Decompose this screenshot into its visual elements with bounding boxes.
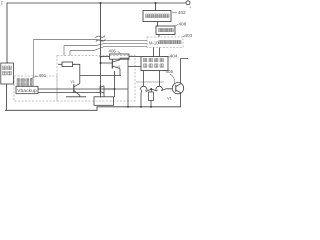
label 408	[175, 22, 187, 27]
wire emitter drop x114.5	[114, 71, 116, 89]
wire bus drop 3	[69, 51, 71, 56]
node J3 on center rail	[100, 56, 102, 58]
node R1 top	[150, 88, 152, 90]
wire emitter rail y75.5	[80, 75, 121, 77]
wire B1 to Q2 riser	[73, 64, 80, 83]
transistor Q5	[151, 86, 172, 91]
resistor R1	[149, 89, 154, 107]
box power supply	[1, 63, 14, 84]
wire node down to load	[114, 89, 116, 97]
node Q1 base rail	[100, 62, 102, 64]
dashed box switch block	[57, 56, 135, 102]
svg-text:408: 408	[179, 22, 187, 27]
wire Vbackup out upper	[38, 88, 115, 90]
wire U408 to U403	[158, 35, 160, 38]
resistor block 406	[110, 54, 130, 59]
wire bus drop to control block	[33, 40, 35, 78]
svg-text:401: 401	[39, 73, 47, 78]
dashed box 401 control block	[14, 76, 57, 101]
wire drain tie	[136, 81, 164, 83]
wire center vertical rail	[100, 3, 102, 63]
wire rail to R406	[101, 56, 110, 58]
label 402	[172, 10, 186, 15]
faint corner mark	[1, 2, 4, 6]
wire power box down	[6, 84, 8, 110]
wire bus line 1	[34, 40, 148, 41]
box Vbackup	[16, 86, 38, 93]
label 405	[166, 69, 175, 83]
node feedback	[114, 88, 116, 90]
break squiggles on bus	[96, 36, 106, 42]
transistor Q2	[66, 84, 86, 97]
transistor Q1	[101, 58, 142, 107]
wire Q5 gate from U404	[159, 71, 161, 87]
text U404 row1	[144, 58, 147, 61]
transistor Q3	[100, 86, 128, 97]
box U402 voltage control unit	[143, 11, 171, 22]
label 404	[168, 54, 178, 59]
text U402	[146, 14, 149, 18]
svg-text:V3: V3	[71, 80, 75, 84]
load block	[94, 97, 114, 106]
svg-text:402: 402	[178, 10, 186, 15]
wire Vbackup out lower	[38, 92, 100, 94]
transistor V1 circled	[172, 59, 188, 107]
svg-text:V2: V2	[117, 65, 121, 69]
svg-text:Vbackup: Vbackup	[17, 88, 37, 93]
wire Q4 gate from U404	[143, 71, 145, 87]
box U404 switch signal unit	[141, 57, 168, 71]
svg-text:404: 404	[170, 54, 178, 59]
node rail x128	[127, 106, 129, 108]
box U408 timing unit	[156, 26, 175, 35]
node J2	[155, 2, 157, 4]
wire bus line 2	[64, 44, 147, 46]
svg-text:V1: V1	[167, 96, 173, 101]
wire top rail	[7, 2, 186, 4]
node Q4 emitter bottom	[140, 106, 142, 108]
text U408	[159, 28, 162, 31]
svg-text:403: 403	[185, 33, 193, 38]
box U403 M-10 processing unit (dashed)	[147, 37, 183, 48]
label 401	[31, 73, 47, 79]
svg-text:405: 405	[166, 69, 174, 74]
transistor Q4	[140, 86, 151, 107]
wire U402 to U408	[157, 22, 159, 27]
svg-text:406: 406	[109, 48, 117, 53]
wires U403 to U404	[154, 48, 160, 57]
node J1	[100, 2, 102, 4]
wire B1 left	[58, 63, 62, 65]
label 406 bus	[109, 48, 121, 54]
wire bus drop 2	[63, 46, 65, 56]
bottom ground rail	[5, 107, 181, 111]
svg-text:+: +	[189, 6, 191, 10]
control unit text block	[17, 79, 20, 82]
svg-text:M-10: M-10	[149, 40, 159, 45]
resistor block B1	[62, 62, 73, 67]
wire to voltage-control box	[155, 3, 157, 11]
wire R406 to U404	[129, 56, 141, 58]
terminal V+	[186, 1, 190, 5]
wire left vertical from top rail	[6, 3, 8, 63]
label 403	[183, 33, 193, 38]
wire bus line 3	[70, 47, 147, 51]
node R1 bottom	[150, 106, 152, 108]
